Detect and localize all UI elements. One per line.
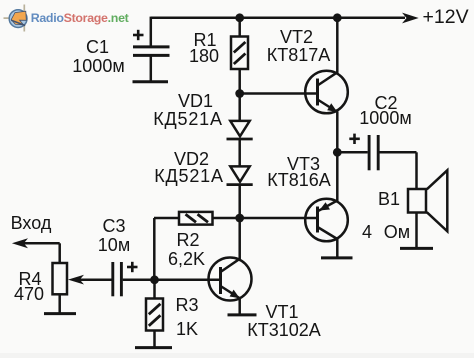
VT1 type label (247, 321, 321, 339)
VD2 value label (154, 167, 224, 185)
VD2 designator label (174, 150, 209, 168)
node junction VD2 / R2 / VT3 base / VT1 collector (235, 214, 244, 223)
logo RadioStorage.net icon (4, 5, 28, 32)
R4 designator label (18, 270, 41, 288)
+12V label (423, 8, 469, 28)
resistor R3 (146, 280, 163, 347)
VT2 type label (267, 46, 331, 64)
ground (R4) (44, 312, 76, 315)
wire +12V top rail (151, 17, 405, 20)
VT3 designator label (287, 155, 320, 173)
transistor VT1 (NPN) (155, 218, 252, 314)
transistor VT3 (PNP) (240, 152, 348, 256)
ground (R3) (135, 346, 172, 349)
C3 designator label (102, 217, 125, 235)
VT2 designator label (280, 28, 313, 46)
+12V arrowhead (402, 13, 419, 24)
R1 designator label (193, 31, 216, 49)
VD1 designator label (178, 92, 213, 110)
node junction rail/R1 (235, 13, 244, 22)
ground (B1) (400, 247, 433, 250)
node junction R1/VD1/VT2 base (235, 89, 244, 98)
C1 value label (72, 57, 124, 75)
C2 value label (359, 109, 411, 127)
VT3 type label (267, 171, 331, 189)
node Вход label (11, 214, 52, 232)
wire R2 left to input node (153, 218, 156, 280)
R1 value label (189, 47, 219, 65)
node junction rail/VT2 collector (333, 13, 342, 22)
VD1 value label (153, 110, 223, 128)
capacitor C2 (337, 134, 416, 171)
R4 value label (14, 285, 44, 303)
speaker B1 (408, 152, 447, 248)
node junction VT2 emitter / VT3 emitter / C2 (333, 148, 342, 157)
resistor R2 (154, 212, 240, 225)
wire VT2 base lead (240, 92, 318, 95)
logo RadioStorage.net text (31, 12, 129, 24)
B1 designator label (378, 190, 400, 208)
ground (VT3) (321, 256, 353, 259)
ground (VT1) (228, 313, 257, 316)
capacitor C3 (77, 262, 155, 297)
diode VD1 (227, 94, 253, 140)
C2 designator label (374, 94, 397, 112)
ground (C1) (133, 80, 169, 83)
potentiometer R4 (12, 238, 84, 313)
resistor R1 (231, 18, 248, 94)
R2 designator label (176, 231, 199, 249)
R3 designator label (175, 296, 198, 314)
B1 value label Ом (384, 223, 410, 241)
capacitor C1 (133, 17, 170, 81)
diode VD2 (227, 139, 253, 218)
B1 value label 4 (362, 223, 372, 241)
R3 value label (176, 320, 198, 338)
VT1 designator label (265, 303, 298, 321)
C3 value label (98, 236, 130, 254)
transistor VT2 (NPN) (305, 18, 348, 153)
C1 designator label (86, 38, 109, 56)
node junction C3 / R2 / R3 / VT1 base (150, 275, 159, 284)
R2 value label (168, 250, 205, 268)
